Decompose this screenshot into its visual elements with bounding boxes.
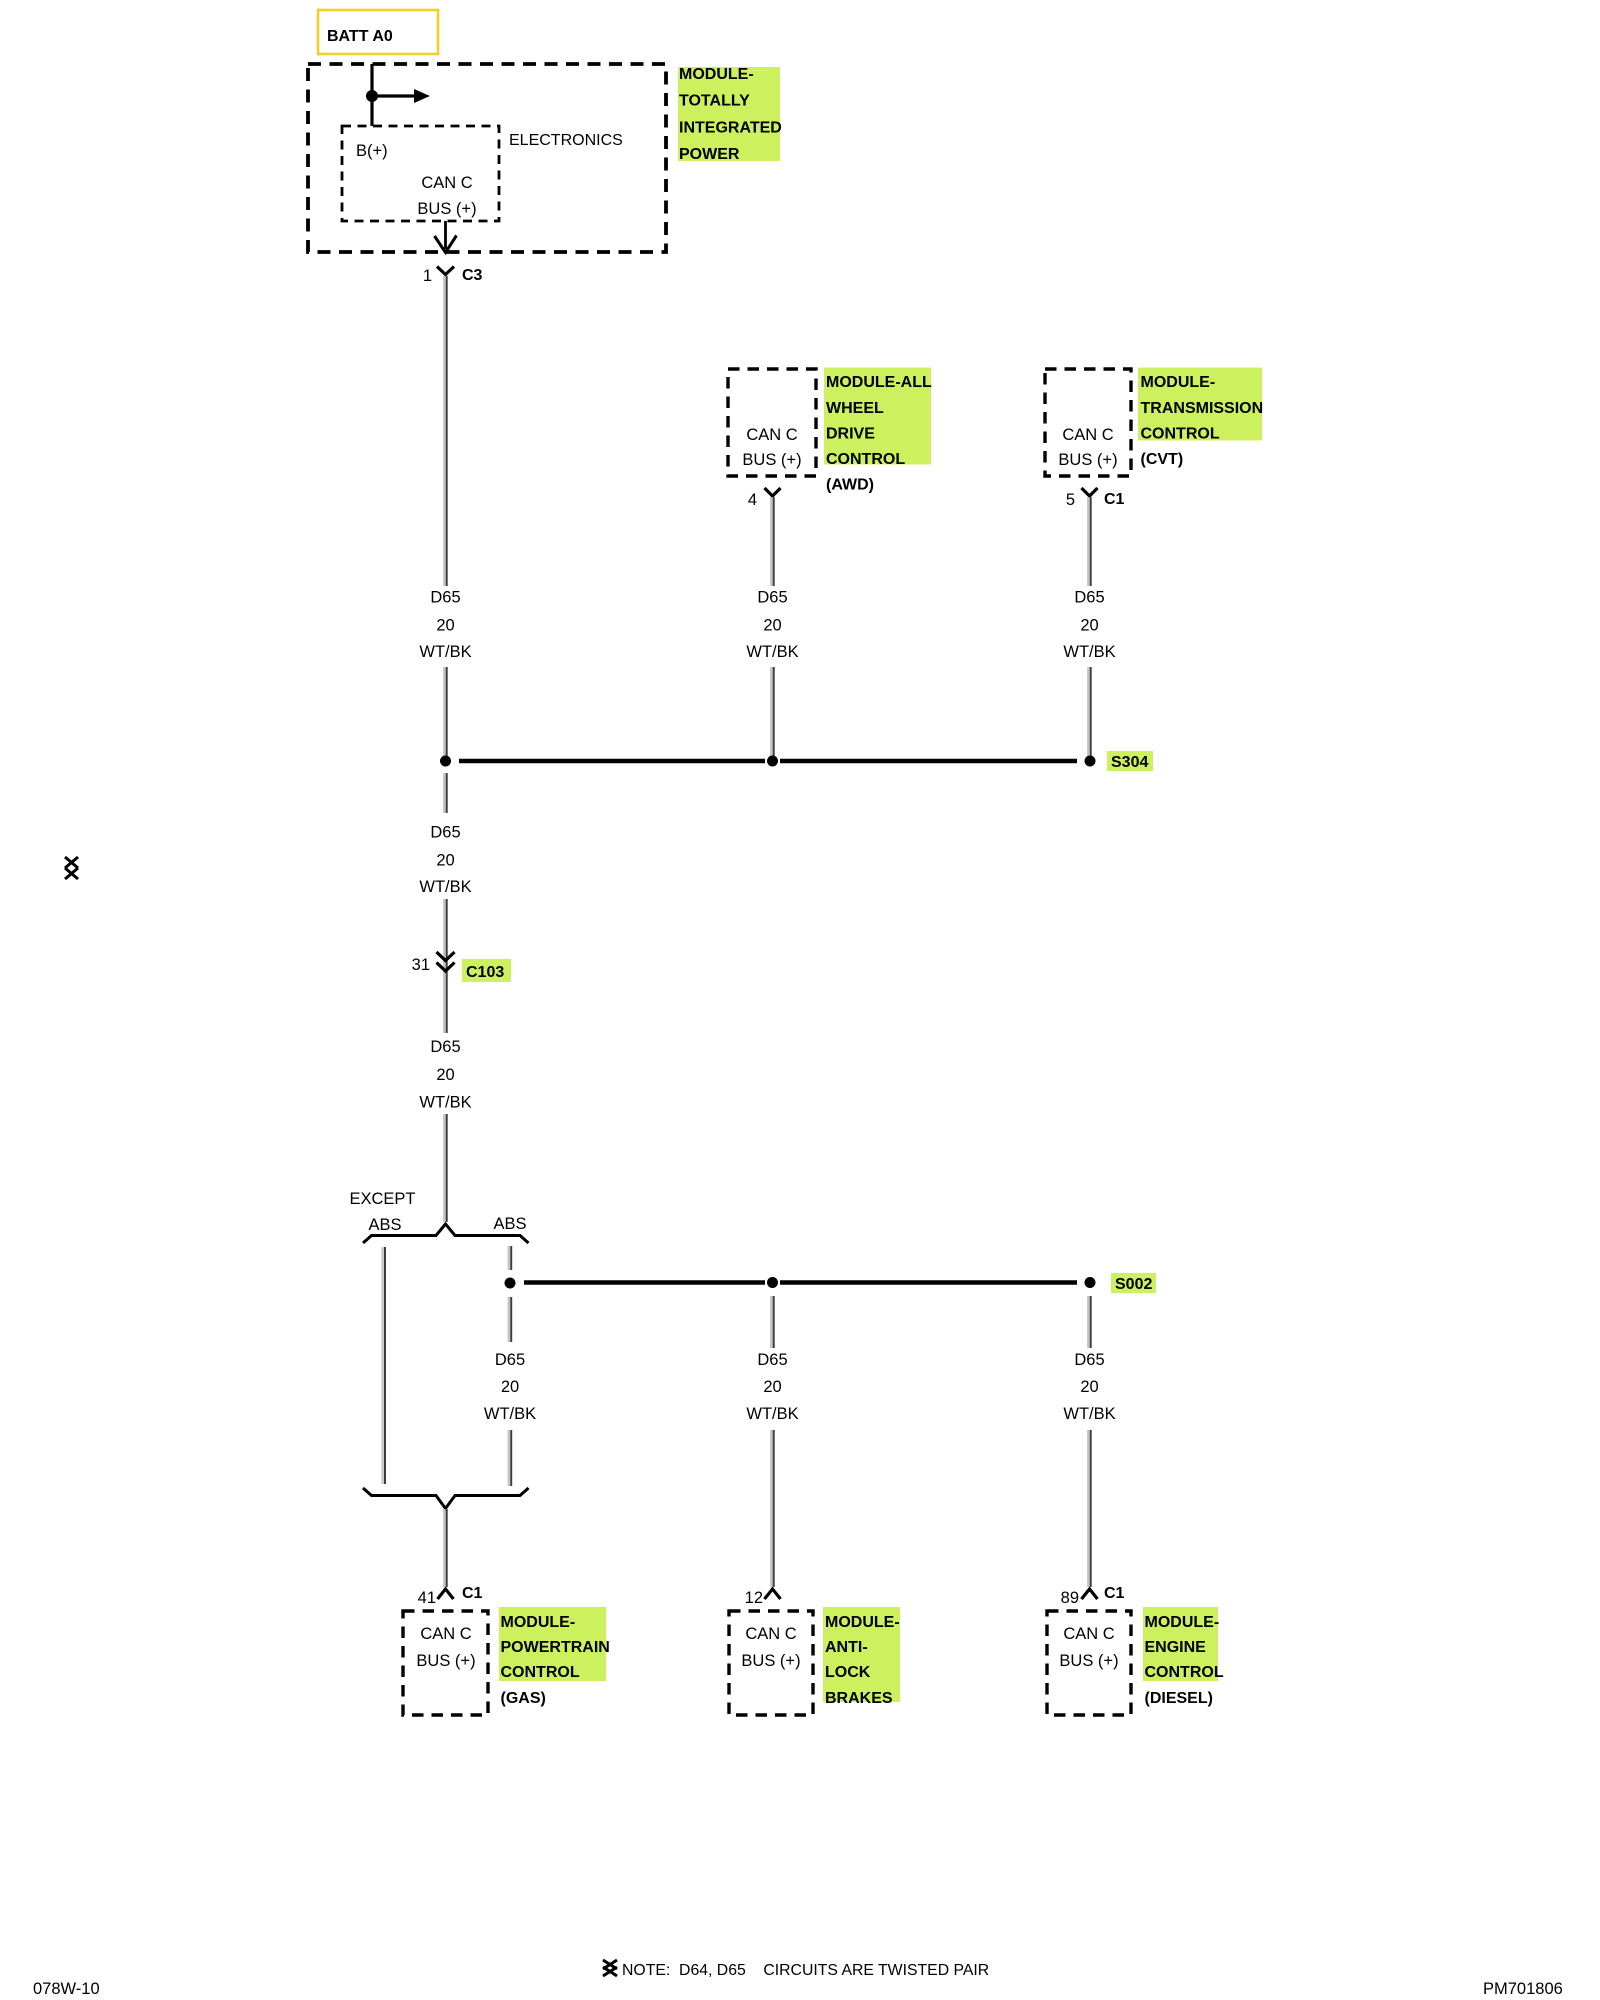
connector C1 pin 89 symbol (ECM) bbox=[1082, 1589, 1098, 1599]
svg-text:D65: D65 bbox=[1074, 1351, 1104, 1369]
splice label S002 (highlighted) bbox=[1111, 1273, 1156, 1293]
junction dot S304 col1 bbox=[440, 756, 451, 767]
svg-text:CONTROL: CONTROL bbox=[826, 451, 905, 468]
wire D65 col2 segment (pin 4 to label row A) bbox=[771, 497, 773, 586]
svg-text:D65: D65 bbox=[430, 1038, 460, 1056]
svg-text:WT/BK: WT/BK bbox=[1063, 643, 1115, 661]
svg-text:WT/BK: WT/BK bbox=[419, 643, 471, 661]
svg-text:TRANSMISSION: TRANSMISSION bbox=[1141, 400, 1264, 417]
svg-text:C3: C3 bbox=[462, 267, 483, 284]
svg-text:BUS (+): BUS (+) bbox=[416, 1652, 475, 1670]
wire D65 col1 segment (C103 to label row C) bbox=[444, 975, 446, 1033]
svg-text:BUS (+): BUS (+) bbox=[1059, 1652, 1118, 1670]
svg-text:(AWD): (AWD) bbox=[826, 477, 874, 494]
internal feed arrow (to fuse bus) bbox=[372, 89, 430, 103]
svg-text:C1: C1 bbox=[1104, 1585, 1125, 1602]
svg-text:20: 20 bbox=[501, 1378, 519, 1396]
svg-text:CAN C: CAN C bbox=[420, 1625, 471, 1643]
connector C103 pin symbol (double chevron) bbox=[437, 952, 455, 971]
svg-text:CAN C: CAN C bbox=[746, 426, 797, 444]
svg-text:20: 20 bbox=[436, 617, 454, 635]
svg-text:4: 4 bbox=[748, 491, 757, 509]
svg-text:(GAS): (GAS) bbox=[501, 1690, 546, 1707]
splice S002 bus wire bbox=[524, 1280, 1077, 1285]
battery feed label box BATT A0 bbox=[318, 10, 438, 54]
svg-text:ABS: ABS bbox=[493, 1215, 526, 1233]
svg-text:BUS (+): BUS (+) bbox=[742, 451, 801, 469]
svg-text:CONTROL: CONTROL bbox=[501, 1664, 580, 1681]
svg-text:C103: C103 bbox=[466, 964, 504, 981]
svg-text:TOTALLY: TOTALLY bbox=[679, 93, 750, 110]
module name label MODULE-ENGINE CONTROL (DIESEL) bbox=[1143, 1607, 1224, 1707]
pin label CAN C BUS (+) of PCM bbox=[416, 1625, 475, 1670]
svg-text:1: 1 bbox=[423, 267, 432, 285]
wire D65 col2 segment (S002 to label row E) bbox=[771, 1296, 773, 1348]
wire D65 col3 segment (label row E to pin 89) bbox=[1088, 1430, 1090, 1587]
wire D65 col1 segment (S304 to label row B) bbox=[444, 773, 446, 813]
module ECM dashed box bbox=[1047, 1611, 1131, 1715]
svg-text:MODULE-: MODULE- bbox=[825, 1614, 900, 1631]
svg-text:WT/BK: WT/BK bbox=[1063, 1405, 1115, 1423]
svg-text:INTEGRATED: INTEGRATED bbox=[679, 119, 782, 136]
connector pin 4 symbol (AWD) bbox=[765, 488, 781, 496]
module name label MODULE-ALL WHEEL DRIVE CONTROL (AWD) bbox=[824, 368, 932, 494]
junction dot S304 col2 bbox=[767, 756, 778, 767]
svg-text:CAN C: CAN C bbox=[1063, 1625, 1114, 1643]
svg-text:D65: D65 bbox=[430, 824, 460, 842]
svg-text:ENGINE: ENGINE bbox=[1145, 1639, 1207, 1656]
svg-text:5: 5 bbox=[1066, 491, 1075, 509]
svg-text:S304: S304 bbox=[1111, 754, 1148, 771]
svg-text:D65: D65 bbox=[757, 1351, 787, 1369]
wire D65 col1 segment (C3 to label row A) bbox=[444, 276, 446, 586]
connector C3 pin symbol bbox=[437, 267, 454, 275]
svg-text:078W-10: 078W-10 bbox=[33, 1980, 100, 1998]
wire branch ABS segment (brace to S002) bbox=[509, 1246, 511, 1270]
option label EXCEPT ABS bbox=[349, 1190, 415, 1234]
svg-text:BRAKES: BRAKES bbox=[825, 1690, 893, 1707]
wire D65 col1 segment (bottom brace to pin 41) bbox=[444, 1509, 446, 1587]
branch merge brace (bottom) bbox=[363, 1488, 529, 1509]
svg-text:20: 20 bbox=[1080, 617, 1098, 635]
module AWD dashed box bbox=[728, 369, 816, 476]
svg-text:MODULE-ALL: MODULE-ALL bbox=[826, 374, 932, 391]
wire value label D65 20 WT/BK (col1 below C103) bbox=[419, 1038, 471, 1112]
svg-text:B(+): B(+) bbox=[356, 142, 388, 160]
svg-text:CAN C: CAN C bbox=[1062, 426, 1113, 444]
pin label CAN C BUS (+) of TIPM bbox=[417, 174, 476, 218]
svg-text:C1: C1 bbox=[1104, 491, 1125, 508]
svg-text:C1: C1 bbox=[462, 1585, 483, 1602]
branch split brace (top) bbox=[363, 1224, 529, 1243]
connector label C103 (highlighted) bbox=[462, 959, 511, 982]
svg-text:CAN C: CAN C bbox=[421, 174, 472, 192]
module name label MODULE-POWERTRAIN CONTROL (GAS) bbox=[499, 1607, 610, 1707]
svg-text:D65: D65 bbox=[495, 1351, 525, 1369]
svg-text:(DIESEL): (DIESEL) bbox=[1145, 1690, 1213, 1707]
svg-text:WT/BK: WT/BK bbox=[419, 878, 471, 896]
wire internal B(+) feed (vertical) bbox=[370, 64, 373, 126]
svg-text:WHEEL: WHEEL bbox=[826, 400, 884, 417]
svg-text:DRIVE: DRIVE bbox=[826, 426, 875, 443]
svg-text:WT/BK: WT/BK bbox=[419, 1094, 471, 1112]
svg-text:12: 12 bbox=[745, 1589, 763, 1607]
wire value label D65 20 WT/BK (col3 below S002) bbox=[1063, 1351, 1115, 1423]
twisted-pair cut mark (left margin) bbox=[65, 857, 78, 879]
svg-text:LOCK: LOCK bbox=[825, 1664, 871, 1681]
svg-text:EXCEPT: EXCEPT bbox=[349, 1190, 415, 1208]
module PCM dashed box bbox=[403, 1611, 488, 1715]
svg-text:31: 31 bbox=[412, 956, 430, 974]
svg-text:20: 20 bbox=[436, 1066, 454, 1084]
junction dot on B(+) feed bbox=[366, 90, 378, 102]
svg-text:POWERTRAIN: POWERTRAIN bbox=[501, 1639, 610, 1656]
svg-text:(CVT): (CVT) bbox=[1141, 451, 1184, 468]
wire value label D65 20 WT/BK (branch ABS) bbox=[484, 1351, 536, 1423]
splice S304 bus wire bbox=[459, 759, 1077, 764]
pin label CAN C BUS (+) of ABS module bbox=[741, 1625, 800, 1670]
svg-text:S002: S002 bbox=[1115, 1276, 1152, 1293]
wire D65 col3 segment (S002 to label row E) bbox=[1088, 1296, 1090, 1348]
svg-text:PM701806: PM701806 bbox=[1483, 1980, 1563, 1998]
module name label MODULE-TRANSMISSION CONTROL (CVT) bbox=[1138, 368, 1263, 469]
svg-text:WT/BK: WT/BK bbox=[484, 1405, 536, 1423]
wire D65 col3 segment (label row A to S304) bbox=[1088, 667, 1090, 759]
svg-text:NOTE: D64, D65 CIRCUITS AR: NOTE: D64, D65 CIRCUITS ARE TWISTED PAIR bbox=[622, 1962, 989, 1979]
pin label CAN C BUS (+) of AWD module bbox=[742, 426, 801, 469]
junction dot S002 col3 bbox=[1085, 1277, 1096, 1288]
svg-text:20: 20 bbox=[763, 617, 781, 635]
svg-text:20: 20 bbox=[1080, 1378, 1098, 1396]
svg-text:41: 41 bbox=[418, 1589, 436, 1607]
svg-text:BATT A0: BATT A0 bbox=[327, 28, 393, 45]
wire D65 col2 segment (label row A to S304) bbox=[771, 667, 773, 759]
wire D65 col1 segment (label row C to branch brace) bbox=[444, 1114, 446, 1222]
wire value label D65 20 WT/BK (col1 above S304) bbox=[419, 589, 471, 662]
svg-text:MODULE-: MODULE- bbox=[501, 1614, 576, 1631]
svg-text:ELECTRONICS: ELECTRONICS bbox=[509, 132, 623, 149]
wire D65 col3 segment (pin 5 to label row A) bbox=[1088, 497, 1090, 586]
svg-text:ANTI-: ANTI- bbox=[825, 1639, 868, 1656]
svg-text:BUS (+): BUS (+) bbox=[741, 1652, 800, 1670]
splice label S304 (highlighted) bbox=[1107, 751, 1153, 771]
svg-text:89: 89 bbox=[1061, 1589, 1079, 1607]
junction dot S002 branch ABS bbox=[505, 1278, 516, 1289]
module ABS dashed box bbox=[729, 1611, 813, 1715]
svg-text:MODULE-: MODULE- bbox=[1141, 374, 1216, 391]
svg-text:CONTROL: CONTROL bbox=[1145, 1664, 1224, 1681]
svg-text:20: 20 bbox=[436, 852, 454, 870]
connector pin 12 symbol (ABS module) bbox=[765, 1589, 781, 1599]
svg-text:MODULE-: MODULE- bbox=[1145, 1614, 1220, 1631]
twisted-pair note symbol bbox=[603, 1960, 617, 1976]
wire D65 col1 segment (label row B to C103) bbox=[444, 899, 446, 975]
wire value label D65 20 WT/BK (col2 below S002) bbox=[746, 1351, 798, 1423]
pin label CAN C BUS (+) of ECM bbox=[1059, 1625, 1118, 1670]
wire branch ABS segment (S002 to label row D) bbox=[509, 1297, 511, 1342]
wire value label D65 20 WT/BK (col2 above S304) bbox=[746, 589, 798, 662]
svg-text:MODULE-: MODULE- bbox=[679, 66, 754, 83]
svg-text:D65: D65 bbox=[430, 589, 460, 607]
wire value label D65 20 WT/BK (col3 above S304) bbox=[1063, 589, 1115, 662]
svg-text:BUS (+): BUS (+) bbox=[1058, 451, 1117, 469]
svg-text:WT/BK: WT/BK bbox=[746, 1405, 798, 1423]
svg-text:20: 20 bbox=[763, 1378, 781, 1396]
internal CAN C output arrow bbox=[435, 221, 457, 253]
junction dot S304 col3 bbox=[1085, 756, 1096, 767]
svg-text:D65: D65 bbox=[1074, 589, 1104, 607]
connector C1 pin 5 symbol (CVT) bbox=[1082, 488, 1098, 496]
wire branch EXCEPT ABS (left) bbox=[383, 1247, 385, 1484]
wire value label D65 20 WT/BK (col1 below S304) bbox=[419, 824, 471, 897]
svg-text:POWER: POWER bbox=[679, 146, 740, 163]
wire branch ABS segment (label row D to bottom brace) bbox=[509, 1430, 511, 1486]
module name label MODULE-ANTI-LOCK BRAKES bbox=[823, 1607, 900, 1707]
junction dot S002 col2 bbox=[767, 1277, 778, 1288]
connector C1 pin 41 symbol (PCM) bbox=[438, 1589, 454, 1599]
svg-text:CONTROL: CONTROL bbox=[1141, 426, 1220, 443]
svg-text:D65: D65 bbox=[757, 589, 787, 607]
module CVT dashed box bbox=[1045, 369, 1131, 476]
svg-text:ABS: ABS bbox=[368, 1216, 401, 1234]
TIPM inner connector dashed box bbox=[342, 126, 499, 221]
svg-text:WT/BK: WT/BK bbox=[746, 643, 798, 661]
wire D65 col1 segment (label row A to S304) bbox=[444, 667, 446, 759]
module U1 TIPM outer dashed box bbox=[308, 64, 666, 252]
module name label MODULE-TOTALLY INTEGRATED POWER (highlighted) bbox=[678, 66, 782, 163]
wire D65 col2 segment (label row E to pin 12) bbox=[771, 1430, 773, 1587]
svg-text:CAN C: CAN C bbox=[745, 1625, 796, 1643]
pin label CAN C BUS (+) of CVT module bbox=[1058, 426, 1117, 469]
svg-text:BUS (+): BUS (+) bbox=[417, 200, 476, 218]
